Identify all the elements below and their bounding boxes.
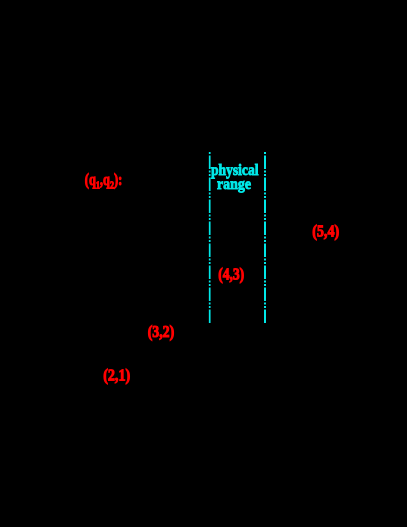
- dashed line left (physical range lower bound): [209, 152, 211, 324]
- svg-text:(q1,q2):: (q1,q2):: [85, 170, 123, 192]
- svg-text:(2,1): (2,1): [103, 366, 130, 385]
- svg-text:range: range: [217, 176, 251, 193]
- svg-text:(5,4): (5,4): [312, 222, 339, 241]
- svg-text:(3,2): (3,2): [148, 322, 175, 341]
- dashed line right (physical range upper bound): [264, 152, 266, 324]
- svg-text:(4,3): (4,3): [218, 265, 244, 284]
